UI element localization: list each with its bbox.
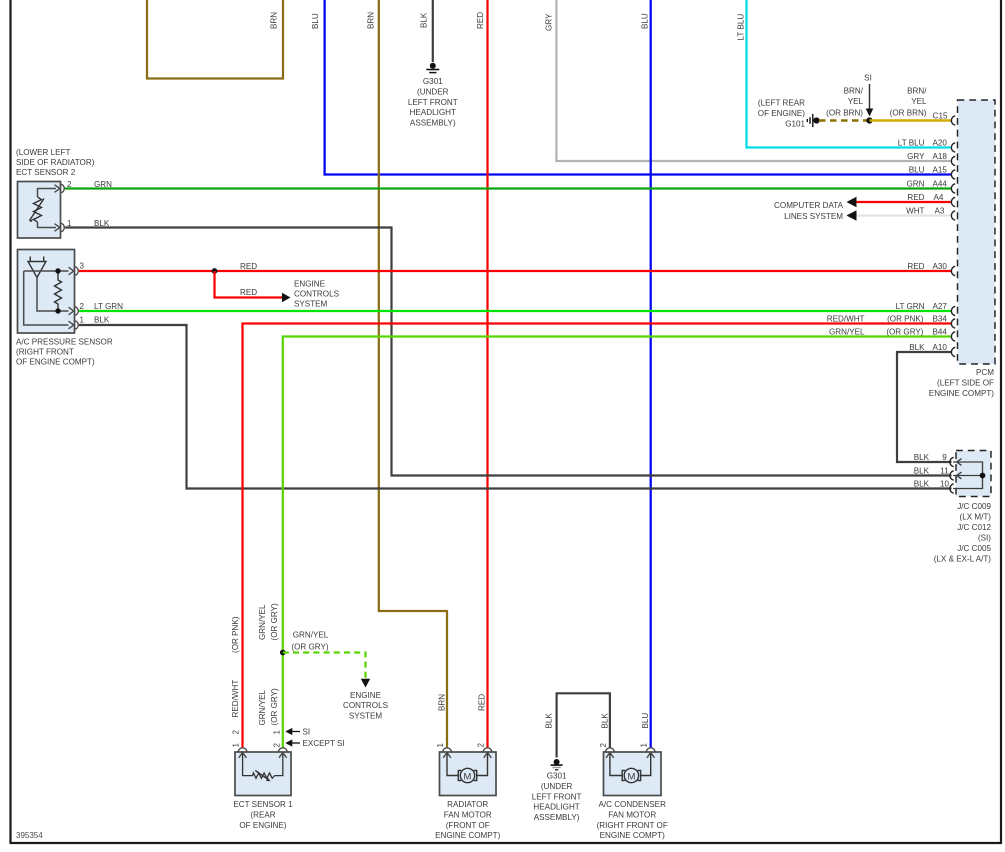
svg-text:A15: A15 [933,166,948,175]
svg-text:(OR PNK): (OR PNK) [231,616,240,653]
junction dot on GRN/YEL wire [280,650,286,656]
svg-text:G101: G101 [785,119,805,128]
svg-text:ASSEMBLY): ASSEMBLY) [534,813,580,822]
svg-text:G301: G301 [423,77,443,86]
svg-text:C15: C15 [933,112,948,121]
svg-text:LT GRN: LT GRN [94,302,123,311]
svg-text:ASSEMBLY): ASSEMBLY) [410,119,456,128]
svg-text:RED: RED [907,193,924,202]
svg-text:11: 11 [940,467,949,476]
svg-text:BLU: BLU [311,13,320,29]
wire BLK to ground G301 (top) [420,0,433,62]
PCM connector [929,100,995,398]
svg-text:(OR PNK): (OR PNK) [887,315,924,324]
svg-text:ENGINE: ENGINE [294,279,326,288]
svg-text:PCM: PCM [976,368,994,377]
svg-text:ENGINE COMPT): ENGINE COMPT) [435,831,501,840]
wire LT BLU to PCM pin A20 [737,0,952,148]
svg-text:1: 1 [640,743,649,748]
svg-text:ENGINE: ENGINE [350,691,382,700]
svg-text:3: 3 [80,262,85,271]
J/C pin arcs [950,457,954,493]
svg-text:(RIGHT FRONT: (RIGHT FRONT [16,348,74,357]
wire RED branch to engine controls system [215,271,340,308]
wire RED to radiator fan motor pin 2 [476,0,488,748]
svg-text:BRN: BRN [367,12,376,29]
svg-text:BRN/: BRN/ [907,87,927,96]
svg-text:BLU: BLU [909,166,925,175]
svg-text:J/C C012: J/C C012 [957,523,991,532]
svg-text:(LOWER LEFT: (LOWER LEFT [16,148,70,157]
svg-text:2: 2 [80,302,85,311]
ECT1 alternate pin number labels [232,730,282,748]
svg-text:BLU: BLU [641,13,650,29]
svg-text:1: 1 [80,315,85,324]
svg-text:BLK: BLK [545,713,554,729]
svg-text:(LEFT REAR: (LEFT REAR [758,98,805,107]
ECT sensor 2 [16,148,95,238]
wire GRY to PCM pin A18 [545,0,952,161]
svg-text:BLK: BLK [94,316,110,325]
svg-text:(LEFT SIDE OF: (LEFT SIDE OF [937,379,994,388]
wire BRN loop (top left) [147,0,283,79]
svg-text:A20: A20 [933,139,948,148]
wire LT GRN A/C sensor pin 2 to PCM pin A27 [79,302,952,311]
svg-text:1: 1 [436,743,445,748]
svg-text:GRN: GRN [94,180,112,189]
svg-text:(SI): (SI) [978,534,991,543]
svg-text:SI: SI [303,728,311,737]
svg-text:(REAR: (REAR [250,810,275,819]
svg-text:(FRONT OF: (FRONT OF [446,821,490,830]
svg-text:YEL: YEL [848,97,864,106]
svg-text:(OR BRN): (OR BRN) [890,109,927,118]
svg-text:2: 2 [599,743,608,748]
wire BRN/YEL to PCM pin C15 [826,87,951,121]
svg-text:2: 2 [232,730,241,735]
svg-text:B44: B44 [933,328,948,337]
svg-text:FAN MOTOR: FAN MOTOR [608,810,656,819]
wire WHT PCM pin A3 to computer data lines system [774,201,951,221]
svg-text:RED: RED [240,262,257,271]
svg-text:YEL: YEL [911,97,927,106]
SI arrow at BRN/YEL junction [864,74,873,117]
svg-text:HEADLIGHT: HEADLIGHT [533,803,579,812]
svg-text:(LX M/T): (LX M/T) [960,513,992,522]
svg-text:GRY: GRY [545,13,554,31]
svg-text:10: 10 [940,480,950,489]
wire BLU to PCM pin A15 [311,0,952,175]
ECT sensor 1 [233,748,293,830]
svg-text:(OR GRY): (OR GRY) [270,688,279,725]
A/C condenser fan motor [597,743,668,841]
svg-text:A/C PRESSURE SENSOR: A/C PRESSURE SENSOR [16,338,113,347]
svg-text:1: 1 [232,743,241,748]
svg-text:(OR BRN): (OR BRN) [826,109,863,118]
svg-text:HEADLIGHT: HEADLIGHT [410,108,456,117]
J/C pin labels [914,453,992,564]
svg-text:BLK: BLK [909,343,925,352]
svg-text:BRN: BRN [270,12,279,29]
PCM pin arcs [951,116,955,357]
wire RED/WHT (OR PNK) PCM pin B34 to ECT1 [231,324,952,749]
svg-text:2: 2 [477,743,486,748]
svg-text:LINES SYSTEM: LINES SYSTEM [784,212,843,221]
svg-text:OF ENGINE COMPT): OF ENGINE COMPT) [16,358,95,367]
ground G301 (bottom) wire BLK [545,693,610,757]
svg-text:OF ENGINE): OF ENGINE) [758,109,806,118]
svg-text:BRN/: BRN/ [844,87,864,96]
svg-text:B34: B34 [933,315,948,324]
svg-text:RED: RED [240,288,257,297]
svg-text:LT GRN: LT GRN [896,302,925,311]
svg-text:OF ENGINE): OF ENGINE) [239,821,287,830]
svg-text:1: 1 [273,730,282,735]
svg-text:BLK: BLK [420,12,429,28]
svg-text:ENGINE COMPT): ENGINE COMPT) [929,389,995,398]
svg-text:BLK: BLK [914,467,930,476]
svg-text:GRN/YEL: GRN/YEL [258,604,267,640]
wire GRN ECT2 pin 2 to PCM pin A44 [65,180,952,189]
svg-text:BLK: BLK [601,713,610,729]
svg-text:LEFT FRONT: LEFT FRONT [532,792,582,801]
svg-text:SYSTEM: SYSTEM [349,712,383,721]
wire BLK PCM pin A10 to J/C pin 9 [897,352,952,462]
svg-text:BRN: BRN [438,694,447,711]
svg-text:CONTROLS: CONTROLS [343,701,389,710]
svg-text:SI: SI [864,74,872,83]
ground G301 (bottom) symbol [532,759,582,822]
svg-text:RADIATOR: RADIATOR [447,800,488,809]
svg-text:(UNDER: (UNDER [541,782,573,791]
svg-text:GRN/YEL: GRN/YEL [258,689,267,725]
svg-text:M: M [627,771,635,782]
svg-text:RED: RED [476,12,485,29]
svg-text:A/C CONDENSER: A/C CONDENSER [598,800,666,809]
svg-text:RED: RED [907,262,924,271]
wire BRN to radiator fan motor pin 1 [367,0,448,748]
svg-text:SIDE OF RADIATOR): SIDE OF RADIATOR) [16,158,95,167]
svg-text:J/C C005: J/C C005 [957,544,991,553]
svg-text:(UNDER: (UNDER [417,87,449,96]
svg-text:9: 9 [942,453,947,462]
svg-text:RED/WHT: RED/WHT [231,680,240,718]
svg-text:(OR GRY): (OR GRY) [886,328,923,337]
svg-text:EXCEPT SI: EXCEPT SI [303,739,345,748]
junction dot BRN/YEL [866,117,872,123]
J/C connector [953,451,991,497]
svg-text:BLK: BLK [914,453,930,462]
svg-text:A4: A4 [934,193,944,202]
svg-text:SYSTEM: SYSTEM [294,299,328,308]
svg-text:2: 2 [273,743,282,748]
svg-text:A27: A27 [933,302,948,311]
ground G101 [758,98,820,128]
svg-text:RED: RED [478,694,487,711]
svg-text:GRN/YEL: GRN/YEL [829,328,865,337]
svg-text:GRN/YEL: GRN/YEL [293,631,329,640]
svg-text:M: M [464,771,472,782]
svg-text:LEFT FRONT: LEFT FRONT [408,98,458,107]
svg-text:GRN: GRN [907,180,925,189]
svg-text:A10: A10 [933,343,948,352]
svg-text:GRY: GRY [907,152,925,161]
svg-text:A30: A30 [933,262,948,271]
svg-text:BLU: BLU [641,713,650,729]
svg-text:RED/WHT: RED/WHT [827,315,865,324]
svg-text:FAN MOTOR: FAN MOTOR [444,810,492,819]
svg-text:ECT SENSOR 2: ECT SENSOR 2 [16,168,76,177]
svg-text:(OR GRY): (OR GRY) [291,643,328,652]
svg-text:(OR GRY): (OR GRY) [270,603,279,640]
svg-text:COMPUTER DATA: COMPUTER DATA [774,201,844,210]
A/C pressure sensor [16,250,113,367]
wire RED PCM pin A4 to computer data lines system [847,197,952,207]
svg-text:ECT SENSOR 1: ECT SENSOR 1 [233,800,293,809]
wire BLU to A/C condenser fan motor pin 1 [641,0,651,748]
svg-text:WHT: WHT [906,207,924,216]
svg-text:ENGINE COMPT): ENGINE COMPT) [600,831,666,840]
svg-text:BLK: BLK [914,480,930,489]
dashed GRN/YEL branch to engine controls system [283,631,389,721]
svg-text:CONTROLS: CONTROLS [294,289,340,298]
svg-text:A3: A3 [935,207,945,216]
ground G301 (top) [408,63,458,128]
SI / EXCEPT SI arrows at ECT1 green wire [285,728,344,749]
svg-text:395354: 395354 [16,831,43,840]
wire BLK ECT2 pin 1 to J/C pin 11 [65,219,952,476]
svg-text:A18: A18 [933,152,948,161]
junction dot on RED wire [212,268,218,274]
svg-text:G301: G301 [547,772,567,781]
svg-text:(RIGHT FRONT OF: (RIGHT FRONT OF [597,821,668,830]
wire BLK A/C sensor pin 1 to J/C pin 10 [79,316,952,489]
radiator fan motor [435,743,501,841]
wire GRN/YEL (OR GRY) PCM pin B44 to ECT1 [258,337,952,749]
svg-text:LT BLU: LT BLU [737,14,746,41]
wire RED A/C sensor pin 3 to PCM pin A30 [79,262,952,271]
svg-text:A44: A44 [933,180,948,189]
svg-text:J/C C009: J/C C009 [957,502,991,511]
PCM pin labels [827,112,948,353]
svg-text:LT BLU: LT BLU [898,139,925,148]
svg-text:(LX & EX-L A/T): (LX & EX-L A/T) [934,555,992,564]
wire BRN/YEL dashed G101 to junction [819,119,870,121]
svg-text:BLK: BLK [94,219,110,228]
